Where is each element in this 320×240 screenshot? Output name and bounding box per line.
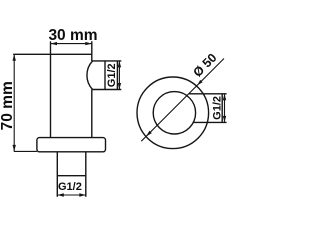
arrow 70mm up (13, 54, 16, 61)
arrow 30mm left (51, 42, 58, 45)
body left edge + 30mm left extension (50, 41, 52, 137)
front outlet dimension line (224, 94, 226, 123)
outlet cylinder end (116, 61, 118, 90)
diameter dimension line (141, 59, 224, 142)
front outlet top line (189, 93, 227, 95)
svg-text:Ø 50: Ø 50 (190, 51, 219, 80)
70mm bottom extension (14, 150, 37, 152)
body right edge upper + 30mm right extension (91, 41, 93, 61)
svg-text:G1/2: G1/2 (106, 63, 118, 87)
arrow diameter upper-right (197, 80, 202, 85)
arrow outlet up (118, 61, 121, 68)
arrow diameter lower-left (146, 131, 152, 137)
front outlet bottom line (193, 121, 227, 123)
30mm dimension line (51, 43, 92, 45)
outer circle front view (137, 77, 209, 149)
arrow stub right (79, 193, 86, 196)
svg-text:G1/2: G1/2 (212, 96, 224, 120)
arrow front outlet down (223, 116, 226, 123)
svg-text:70 mm: 70 mm (0, 81, 16, 130)
outlet dimension line (118, 61, 120, 90)
arrow front outlet up (223, 94, 226, 101)
arrow 70mm down (13, 145, 16, 152)
svg-text:30 mm: 30 mm (48, 27, 97, 44)
body right edge lower (91, 90, 93, 138)
inner circle front view (153, 92, 195, 134)
arrow 30mm right (85, 42, 92, 45)
flange (wall plate) (37, 138, 106, 152)
arrow stub left (57, 193, 64, 196)
body top line + 70mm top extension (13, 53, 92, 55)
outlet divider line (104, 61, 106, 90)
outlet top line (92, 60, 122, 62)
arrow outlet down (118, 83, 121, 90)
stub right edge + extension (85, 152, 87, 197)
outlet bottom line (92, 89, 122, 91)
stub bottom line (57, 175, 86, 177)
outlet sphere arc (87, 61, 93, 90)
front outlet right edge (221, 94, 223, 123)
svg-text:G1/2: G1/2 (58, 181, 82, 193)
70mm dimension line (13, 54, 15, 151)
stub left edge + extension (56, 152, 58, 197)
stub dimension line (57, 194, 86, 196)
